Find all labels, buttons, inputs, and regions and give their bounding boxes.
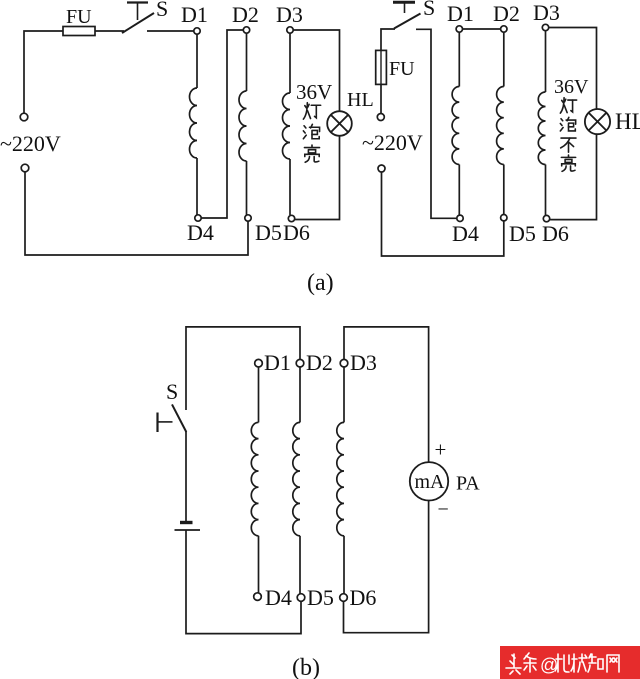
- svg-text:D4: D4: [187, 220, 214, 245]
- node D6 (b): [340, 594, 348, 602]
- wire: lamp to D6: [295, 136, 340, 219]
- wire: b left loop top: [186, 327, 300, 410]
- label 泡 (a-right): [561, 119, 563, 121]
- wire: FU to switch: [95, 30, 124, 32]
- node D4 (a-left): [195, 215, 201, 221]
- fuse FU (a-right): [376, 50, 415, 84]
- svg-text:D3: D3: [276, 2, 303, 27]
- wire: a1 bottom rail to D5: [25, 172, 248, 255]
- winding 1 D1-D4 (a-right): [452, 32, 459, 215]
- svg-text:D1: D1: [447, 1, 474, 26]
- node D5 (a-right): [501, 215, 507, 221]
- svg-text:D6: D6: [350, 585, 377, 610]
- wire: D3 to lamp branch (a-right): [549, 28, 597, 109]
- switch S (b): [158, 379, 187, 432]
- node D6 (a-right): [543, 215, 549, 221]
- wire: switch to battery (b): [185, 431, 187, 521]
- svg-text:D5: D5: [307, 585, 334, 610]
- wire: D1 to D2 top (a-right): [462, 28, 501, 30]
- node: source terminal top (a-left): [20, 113, 28, 121]
- svg-text:~220V: ~220V: [0, 131, 61, 156]
- svg-text:mA: mA: [415, 471, 446, 493]
- svg-text:HL: HL: [347, 89, 374, 111]
- svg-text:D4: D4: [265, 585, 292, 610]
- label 灯 (a-right): [562, 100, 564, 102]
- wire: lamp to D6 (a-right): [550, 135, 597, 220]
- svg-text:D3: D3: [350, 350, 377, 375]
- winding 3 D3-D6 (a-right): [538, 31, 545, 216]
- watermark badge 头条@机械知网: [500, 646, 640, 679]
- wire: battery to bottom rail (b): [186, 531, 301, 634]
- svg-text:−: −: [438, 499, 449, 521]
- svg-text:D1: D1: [264, 350, 291, 375]
- node D3 (b): [340, 359, 348, 367]
- node D2 (b): [296, 359, 304, 367]
- svg-text:@: @: [540, 655, 558, 675]
- winding 1 D1-D4 (b): [251, 367, 258, 593]
- wire: a1 left rail top: [24, 31, 63, 113]
- node D2 (a-left): [243, 27, 249, 33]
- svg-text:(a): (a): [307, 270, 334, 296]
- svg-text:+: +: [435, 438, 447, 462]
- svg-text:D4: D4: [452, 221, 479, 246]
- label 泡 (a-left): [304, 126, 306, 128]
- lamp HL (a-right): [585, 109, 610, 134]
- svg-text:D6: D6: [283, 220, 310, 245]
- svg-text:S: S: [156, 0, 168, 21]
- node D4 (b): [254, 593, 262, 601]
- svg-text:FU: FU: [389, 58, 415, 80]
- svg-text:(b): (b): [292, 655, 320, 679]
- node D3 (a-right): [542, 24, 548, 30]
- svg-text:S: S: [166, 379, 178, 404]
- switch S (a-right): [393, 0, 435, 29]
- svg-text:36V: 36V: [296, 80, 332, 104]
- node: source terminal bottom (a-right): [378, 165, 385, 172]
- fuse FU (a-left): [63, 6, 95, 36]
- wire: D3 to lamp branch: [293, 30, 340, 111]
- svg-text:D1: D1: [181, 2, 208, 27]
- wire: D4 up to D2 (series link): [201, 30, 243, 218]
- svg-text:S: S: [423, 0, 435, 20]
- node D5 (b): [297, 594, 305, 602]
- svg-text:D2: D2: [232, 2, 259, 27]
- svg-text:PA: PA: [456, 473, 480, 495]
- label 不 (a-right): [561, 137, 576, 139]
- svg-text:D3: D3: [533, 0, 560, 25]
- node D1 (a-right): [456, 26, 462, 32]
- switch S (a-left): [122, 0, 168, 33]
- wire: source up to switch (a-right): [381, 29, 395, 50]
- winding 2 D2-D5 (a-left): [239, 33, 246, 215]
- label 灯 (a-left): [305, 106, 307, 109]
- node D1 (b): [255, 359, 263, 367]
- svg-text:D5: D5: [509, 221, 536, 246]
- wire: switch to D1: [147, 30, 197, 32]
- svg-text:36V: 36V: [554, 76, 589, 98]
- wire: FU to terminal (a-right): [380, 84, 382, 113]
- winding 1 D1-D4 (a-left): [189, 34, 197, 215]
- winding 2 D2-D5 (b): [293, 367, 300, 594]
- svg-text:D2: D2: [493, 1, 520, 26]
- svg-text:~220V: ~220V: [362, 130, 423, 155]
- node D6 (a-left): [288, 215, 294, 221]
- node: source terminal top (a-right): [377, 114, 384, 121]
- svg-text:D5: D5: [255, 220, 282, 245]
- svg-text:FU: FU: [66, 6, 92, 28]
- winding 3 D3-D6 (a-left): [283, 33, 291, 215]
- node D4 (a-right): [457, 215, 463, 221]
- node D3 (a-left): [287, 27, 293, 33]
- winding 2 D2-D5 (a-right): [497, 32, 504, 215]
- node D5 (a-left): [245, 215, 251, 221]
- wire: a2 bottom rail to D5: [382, 172, 504, 256]
- svg-text:D6: D6: [542, 221, 569, 246]
- node D1 (a-left): [194, 28, 200, 34]
- svg-text:D2: D2: [306, 350, 333, 375]
- meter PA (b): [410, 462, 448, 500]
- label 亮 (a-left): [311, 145, 313, 147]
- wire: D6 to bottom rail (b): [344, 500, 429, 633]
- node D2 (a-right): [501, 26, 507, 32]
- label 亮 (a-right): [568, 155, 570, 157]
- winding 3 D3-D6 (b): [337, 367, 344, 594]
- wire: switch down to D4 (a-right): [416, 29, 457, 218]
- lamp HL (a-left): [327, 111, 352, 136]
- svg-text:HL: HL: [615, 109, 640, 134]
- node: source terminal bottom (a-left): [21, 164, 29, 172]
- wire: b right loop: [344, 327, 429, 463]
- battery GB (b): [175, 523, 201, 531]
